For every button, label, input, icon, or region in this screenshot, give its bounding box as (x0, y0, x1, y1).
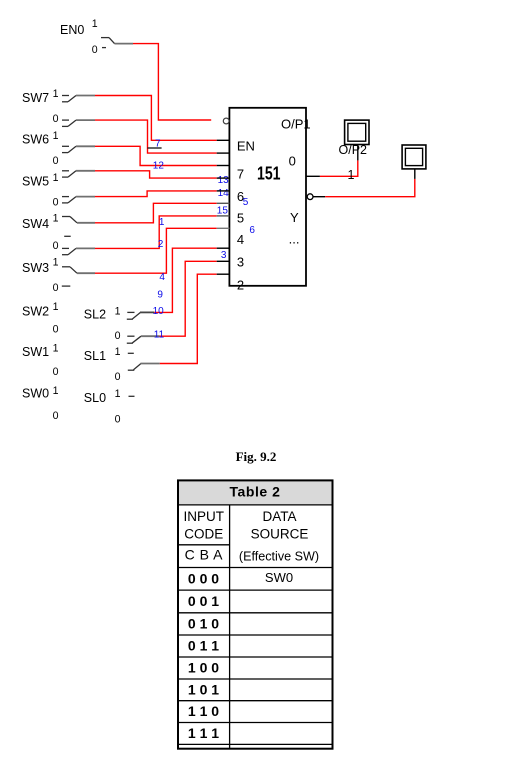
contact tick SW4 (64, 235, 71, 237)
Table 2 header fill (178, 480, 333, 505)
LED pin lead (414, 169, 416, 179)
svg-text:O/P1: O/P1 (281, 116, 311, 131)
switch SW3-1 (down position) (62, 267, 95, 273)
svg-text:12: 12 (153, 161, 165, 172)
IC left pin stubs (217, 140, 230, 274)
svg-text:0: 0 (53, 366, 59, 378)
wire SW5-1 to chip pin 5 (95, 191, 217, 197)
svg-text:11: 11 (154, 330, 165, 341)
switch SL2-1 (127, 312, 154, 319)
svg-text:EN: EN (237, 138, 255, 153)
IC output pin Y stub (306, 175, 320, 177)
wire SW4-0 to chip pin 7 (95, 216, 217, 249)
LED indicator outer (402, 145, 426, 169)
wire SW4-1 to chip pin 6 (95, 203, 217, 223)
svg-text:1 1 1: 1 1 1 (188, 725, 219, 741)
svg-text:9: 9 (157, 290, 163, 301)
svg-text:0: 0 (92, 44, 98, 56)
svg-text:SW5: SW5 (22, 175, 49, 189)
svg-text:0: 0 (115, 414, 121, 426)
contact tick SL0 (129, 395, 135, 397)
svg-text:CODE: CODE (184, 526, 223, 541)
svg-text:SW4: SW4 (22, 217, 49, 231)
svg-text:SL0: SL0 (84, 391, 106, 405)
svg-text:0: 0 (53, 282, 59, 294)
switch EN0 (down position) (101, 38, 133, 48)
wire Y output to LED O/P2 (320, 160, 358, 176)
svg-text:0: 0 (289, 153, 296, 168)
svg-text:0: 0 (53, 113, 59, 125)
Table 2 column divider (229, 505, 231, 749)
svg-text:0: 0 (115, 371, 121, 383)
contact tick SW3 (62, 285, 71, 287)
svg-text:0 1 1: 0 1 1 (188, 638, 219, 654)
svg-text:2: 2 (237, 277, 244, 292)
wire SL2-1 to chip pin 9 (154, 248, 217, 312)
svg-text:0: 0 (53, 324, 59, 336)
svg-text:0: 0 (53, 240, 59, 252)
svg-text:C B A: C B A (185, 547, 223, 563)
svg-text:SW6: SW6 (22, 133, 49, 147)
svg-text:15: 15 (217, 206, 229, 217)
switch SW4-1 (down position) (62, 217, 95, 223)
inverted output bubble W (307, 194, 313, 200)
Table 2 line under CODE (178, 544, 230, 546)
wire SW6-0 to chip pin 4 (95, 171, 217, 178)
svg-text:1: 1 (53, 301, 59, 313)
svg-text:SW7: SW7 (22, 91, 49, 105)
svg-text:1 0 1: 1 0 1 (188, 681, 219, 697)
switch SW7-0 (62, 120, 95, 126)
wire W output to LED (325, 179, 415, 197)
svg-text:SW1: SW1 (22, 345, 49, 359)
svg-text:4: 4 (237, 232, 244, 247)
svg-text:7: 7 (237, 166, 244, 181)
svg-text:DATA: DATA (262, 509, 296, 524)
svg-text:0 0 1: 0 0 1 (188, 593, 219, 609)
svg-text:EN0: EN0 (60, 23, 84, 37)
svg-text:3: 3 (237, 255, 244, 270)
svg-text:O/P2: O/P2 (339, 143, 368, 157)
svg-text:1: 1 (53, 257, 59, 269)
svg-text:1 1 0: 1 1 0 (188, 703, 219, 719)
svg-text:Fig. 9.2: Fig. 9.2 (236, 449, 277, 464)
switch SW5-1 (62, 197, 95, 203)
svg-text:1: 1 (115, 306, 121, 318)
svg-text:0: 0 (115, 330, 121, 342)
LED indicator O/P2 inner (348, 123, 366, 141)
wire EN0 to EN bubble (133, 44, 211, 120)
Table 2 header underline (178, 504, 333, 506)
svg-text:0 0 0: 0 0 0 (188, 570, 219, 586)
Table 2 outer border (178, 480, 333, 748)
svg-text:0: 0 (53, 197, 59, 209)
svg-text:SW0: SW0 (22, 386, 49, 400)
wire SW6-1 to chip pin 3 (95, 146, 217, 165)
svg-text:6: 6 (249, 225, 255, 236)
svg-text:13: 13 (218, 175, 230, 186)
svg-text:0 1 0: 0 1 0 (188, 615, 219, 631)
svg-text:1: 1 (348, 168, 355, 182)
svg-text:SW3: SW3 (22, 261, 49, 275)
svg-text:1: 1 (53, 342, 59, 354)
enable bubble (active-low) (223, 118, 229, 124)
svg-text:SOURCE: SOURCE (251, 526, 309, 541)
switch SL1 (128, 364, 160, 371)
LED indicator O/P2 outer (345, 120, 369, 144)
svg-text:1: 1 (53, 212, 59, 224)
svg-text:1: 1 (115, 388, 121, 400)
switch SW6-0 (62, 171, 95, 177)
svg-text:SW0: SW0 (265, 570, 293, 585)
svg-text:SL1: SL1 (84, 349, 106, 363)
Table 2 row lines (178, 590, 333, 744)
svg-text:SW2: SW2 (22, 304, 49, 318)
svg-text:5: 5 (237, 210, 244, 225)
svg-text:(Effective SW): (Effective SW) (239, 549, 319, 563)
LED O/P2 pin lead (357, 145, 359, 161)
svg-text:...: ... (289, 232, 300, 247)
svg-text:151: 151 (257, 162, 281, 183)
svg-text:1: 1 (53, 130, 59, 142)
switch SW6-1 (62, 146, 95, 152)
svg-text:2: 2 (158, 239, 164, 250)
svg-text:1: 1 (92, 18, 98, 30)
wire SW7-0 to chip pin 2 (95, 120, 217, 153)
switch SL2-0 (127, 336, 160, 343)
Table 2 line under C B A (178, 567, 333, 569)
svg-text:1 0 0: 1 0 0 (188, 660, 219, 676)
svg-text:1: 1 (115, 346, 121, 358)
svg-text:Y: Y (290, 210, 299, 225)
svg-text:1: 1 (53, 172, 59, 184)
W output stub (313, 196, 325, 198)
wire SW3-1 to chip pin 8 (95, 228, 217, 273)
svg-text:1: 1 (53, 88, 59, 100)
svg-text:1: 1 (53, 385, 59, 397)
svg-text:3: 3 (221, 250, 227, 261)
svg-text:1: 1 (159, 217, 165, 228)
svg-text:14: 14 (218, 188, 230, 199)
contact tick SL1 (128, 352, 134, 354)
wire SW7-1 to chip pin EN (95, 96, 217, 141)
svg-text:10: 10 (153, 306, 165, 317)
svg-text:0: 0 (53, 155, 59, 167)
tick under node 7 (147, 147, 161, 149)
svg-text:INPUT: INPUT (184, 509, 225, 524)
switch SW7-1 (62, 96, 95, 102)
switch SW4-0 (62, 248, 95, 254)
svg-text:SL2: SL2 (84, 308, 106, 322)
svg-text:Table 2: Table 2 (229, 484, 280, 500)
LED indicator inner (405, 148, 422, 165)
wire SL1 to chip pin 11 (160, 274, 217, 363)
svg-text:0: 0 (53, 410, 59, 422)
wire SL2-0 to chip pin 10 (160, 261, 217, 336)
IC U1 74151 body (229, 108, 306, 286)
svg-text:4: 4 (159, 272, 165, 283)
svg-text:5: 5 (243, 197, 249, 208)
